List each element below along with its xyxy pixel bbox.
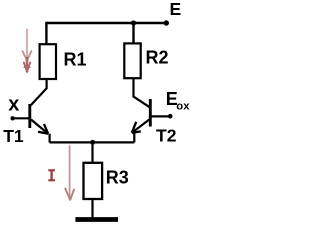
- wire R3 top lead: [91, 142, 93, 163]
- node E supply dot: [164, 20, 169, 25]
- svg-text:E: E: [170, 0, 182, 19]
- wire top-left corner down to R1: [45, 22, 47, 45]
- wire R2 bottom lead: [132, 78, 134, 98]
- svg-text:x: x: [8, 94, 19, 116]
- svg-text:T2: T2: [156, 126, 177, 146]
- node common emitter junction dot: [90, 140, 95, 145]
- wire T2 emitter to rail: [133, 131, 135, 143]
- wire R3 bottom lead: [91, 199, 93, 218]
- node x input dot: [10, 116, 14, 120]
- wire T2 base lead: [152, 115, 170, 117]
- wire common emitter rail: [50, 141, 135, 143]
- node junction dot top rail to R2: [131, 20, 136, 25]
- wire T1 emitter to rail: [48, 134, 50, 143]
- wire R2 top lead: [132, 23, 134, 44]
- wire R1 bottom lead: [45, 79, 47, 89]
- resistor R3: [84, 163, 103, 199]
- resistor R1: [40, 44, 56, 79]
- label I current: [48, 170, 55, 181]
- annotation red arrow through R3: [65, 146, 74, 200]
- transistor T1: [30, 88, 48, 134]
- resistor R2: [124, 43, 140, 78]
- transistor T2: [132, 97, 151, 133]
- ground: [75, 217, 118, 222]
- wire T1 base lead: [13, 117, 29, 119]
- wire top rail: [46, 22, 166, 24]
- svg-text:R1: R1: [64, 50, 87, 70]
- svg-text:R2: R2: [146, 48, 169, 68]
- node Eox dot: [168, 114, 173, 119]
- svg-text:ox: ox: [176, 101, 190, 113]
- svg-text:R3: R3: [106, 168, 129, 188]
- svg-text:T1: T1: [3, 126, 24, 146]
- annotation red arrow near R1: [23, 30, 32, 72]
